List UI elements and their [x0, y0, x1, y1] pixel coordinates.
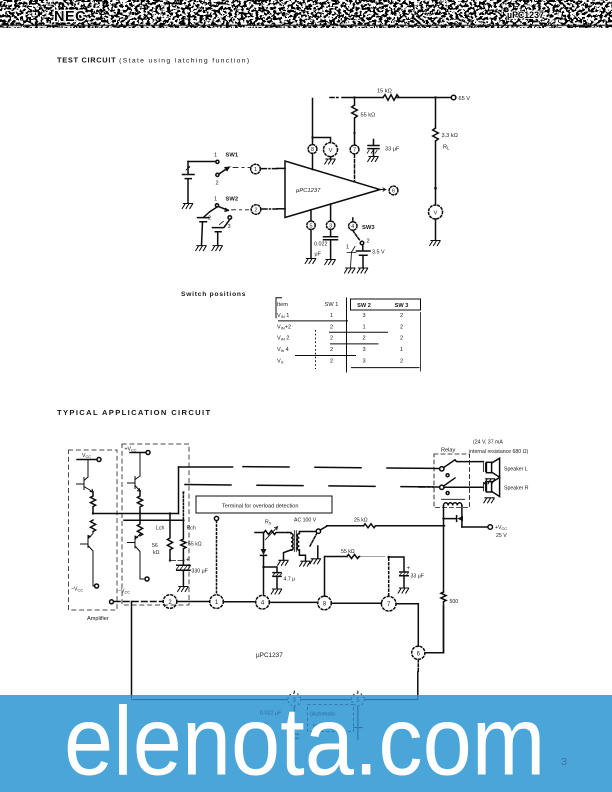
- pin 8: [318, 596, 332, 610]
- svg-text:8: 8: [323, 602, 327, 608]
- svg-text:3: 3: [561, 756, 567, 768]
- pin 6 circle output: [389, 186, 398, 195]
- svg-text:1: 1: [346, 245, 349, 251]
- svg-text:+: +: [186, 557, 190, 564]
- svg-text:SW 3: SW 3: [395, 303, 409, 309]
- wire pin5 cap: [353, 706, 362, 740]
- ground under 4.7u: [271, 589, 281, 594]
- transistor Q4 pnp: [128, 534, 145, 579]
- svg-text:internal resistance 680 Ω): internal resistance 680 Ω): [469, 449, 529, 455]
- voltmeter V1: [324, 143, 338, 157]
- table row VIN-2: [277, 336, 403, 342]
- resistor 55k vertical: [352, 98, 376, 146]
- table bottom rule: [351, 367, 420, 369]
- relay note text: [469, 440, 529, 455]
- svg-text:2: 2: [367, 239, 370, 245]
- ground under B2: [196, 246, 206, 251]
- ground under B1: [182, 204, 192, 209]
- svg-text:1: 1: [400, 347, 403, 353]
- svg-text:2: 2: [400, 336, 403, 342]
- svg-text:65 V: 65 V: [459, 96, 471, 102]
- transformer T1: [288, 518, 317, 552]
- wire to speaker R: [444, 486, 483, 488]
- wire pin5 to ground: [310, 230, 312, 259]
- wire top supply rail: [330, 97, 451, 99]
- svg-text:1: 1: [254, 167, 257, 173]
- switch SW3 arm: [346, 230, 370, 250]
- svg-text:3: 3: [362, 313, 365, 319]
- wire pin7 to pin6 drop: [396, 604, 418, 647]
- wire IC bottom edge: [132, 695, 418, 700]
- svg-text:VIN+2: VIN+2: [277, 324, 291, 330]
- terminal pin2 input: [110, 600, 114, 604]
- svg-text:elenota.com: elenota.com: [64, 687, 545, 792]
- wire SW1 top: [188, 161, 216, 163]
- ground under 33uF: [368, 157, 378, 162]
- uPC1237 header part number: [507, 10, 544, 20]
- pin 2 circle: [251, 205, 261, 215]
- node rail-RL junction dot: [434, 96, 436, 98]
- resistor R4 lower right: [137, 520, 142, 535]
- battery B3 SW2 contact3: [213, 219, 230, 245]
- svg-text:(24 V, 37 mA: (24 V, 37 mA: [473, 440, 503, 446]
- svg-text:VCC: VCC: [82, 453, 91, 459]
- amplifier dashed box left stage: [69, 450, 118, 610]
- circuit traces behind banner: [132, 695, 418, 762]
- ground transformer primary: [278, 560, 288, 565]
- svg-text:2: 2: [400, 358, 403, 364]
- svg-text:TYPICAL APPLICATION CIRCUIT: TYPICAL APPLICATION CIRCUIT: [57, 408, 211, 417]
- pin 3 circle bottom: [326, 221, 334, 229]
- svg-text:1: 1: [214, 153, 217, 159]
- terminal under box: [214, 516, 218, 520]
- svg-text:6: 6: [417, 651, 421, 657]
- capacitor 33uF: [367, 140, 400, 156]
- wire pin8-pin7: [331, 602, 381, 604]
- svg-text:1: 1: [362, 324, 365, 330]
- svg-text:V: V: [329, 148, 333, 154]
- wire transformer primary to ground: [284, 550, 292, 560]
- ground under SW3 contact1: [345, 268, 355, 273]
- wire pin5 stub to triangle: [310, 210, 312, 221]
- table header box SW2 SW3: [351, 299, 421, 310]
- pin 8 circle: [308, 145, 317, 154]
- +VCC terminal right stage: [125, 447, 151, 455]
- svg-text:4: 4: [261, 601, 265, 607]
- svg-text:Speaker L: Speaker L: [504, 466, 528, 472]
- node Lch tap: [169, 512, 171, 514]
- automatic reset dashed box: [308, 705, 354, 732]
- svg-text:Rch: Rch: [187, 526, 196, 532]
- svg-text:3: 3: [362, 347, 365, 353]
- svg-text:Switch positions: Switch positions: [181, 291, 246, 298]
- wire pin6 to relay line: [425, 606, 444, 653]
- pin 5 circle straddling banner: [352, 691, 365, 706]
- svg-text:4: 4: [351, 224, 354, 230]
- table right rule: [420, 312, 422, 372]
- capacitor 4.7u: [264, 567, 296, 589]
- -VCC terminal left stage: [71, 584, 99, 593]
- svg-text:25 V: 25 V: [496, 533, 507, 539]
- svg-text:33 μF: 33 μF: [411, 574, 424, 580]
- node coil-diode left: [442, 517, 444, 519]
- svg-text:2: 2: [330, 358, 333, 364]
- svg-text:TEST CIRCUIT (State using latc: TEST CIRCUIT (State using latching funct…: [57, 56, 250, 65]
- svg-text:25 kΩ: 25 kΩ: [354, 518, 368, 524]
- pin 2: [163, 595, 177, 609]
- svg-text:8: 8: [311, 147, 314, 153]
- VCC terminal left stage: [77, 453, 101, 462]
- svg-text:2: 2: [255, 208, 258, 214]
- table row VS: [277, 358, 403, 364]
- wire line A to relay contact 1: [179, 466, 233, 468]
- svg-text:RL: RL: [443, 145, 450, 151]
- resistor Rs: [255, 520, 288, 540]
- table row rule 3: [330, 343, 379, 345]
- overload detection terminal box: [196, 496, 332, 513]
- svg-text:5: 5: [310, 223, 313, 229]
- voltmeter V2 output: [429, 205, 443, 219]
- NEC logo text: [54, 9, 86, 25]
- terminal 65V: [451, 95, 470, 102]
- svg-text:2: 2: [208, 216, 211, 222]
- battery B1 for SW1: [183, 162, 195, 204]
- table row Vth-4: [277, 347, 403, 353]
- wire pin3 stub to triangle: [330, 204, 332, 221]
- transistor Q3 npn: [128, 453, 141, 492]
- wire to speaker L: [455, 460, 483, 461]
- svg-text:55 kΩ: 55 kΩ: [188, 542, 202, 548]
- pin 1 circle: [251, 164, 261, 174]
- wire diode to pin 4: [263, 567, 265, 595]
- wire terminal to pin1 dotted: [216, 521, 218, 595]
- svg-text:VS: VS: [277, 358, 284, 364]
- ground under speaker R: [484, 498, 494, 503]
- op-amp triangle U1 uPC1237: [285, 161, 380, 218]
- svg-text:−VCC: −VCC: [71, 587, 83, 593]
- svg-text:55 kΩ: 55 kΩ: [341, 549, 355, 555]
- table row VIN-1: [277, 313, 403, 319]
- switch SW1: [214, 153, 251, 187]
- svg-text:+VCC: +VCC: [495, 525, 507, 531]
- banner blue bar: [0, 695, 612, 792]
- svg-text:7: 7: [353, 148, 356, 154]
- table frame left bracket: [276, 298, 282, 319]
- table dotted vertical rule: [315, 330, 317, 369]
- ground transformer secondary: [300, 561, 310, 566]
- table header text: [277, 302, 408, 309]
- svg-text:15 kΩ: 15 kΩ: [377, 89, 392, 95]
- svg-text:SW 2: SW 2: [357, 303, 371, 309]
- pin 1: [210, 595, 224, 609]
- svg-text:µPC1237: µPC1237: [256, 652, 283, 659]
- TEST CIRCUIT heading: [57, 56, 250, 65]
- svg-text:μF: μF: [315, 252, 322, 258]
- wire pin4-pin8: [269, 601, 317, 603]
- speaker R: [483, 478, 528, 497]
- switch AC detect: [310, 529, 321, 558]
- table main vertical rule: [346, 298, 348, 373]
- svg-text:6: 6: [392, 189, 395, 195]
- svg-text:2: 2: [330, 336, 333, 342]
- svg-text:55 kΩ: 55 kΩ: [361, 113, 376, 119]
- resistor 55k pin7: [341, 549, 385, 559]
- svg-text:µPC1237: µPC1237: [296, 188, 321, 194]
- svg-text:kΩ: kΩ: [153, 550, 160, 556]
- svg-text:33 μF: 33 μF: [385, 147, 400, 153]
- resistor R1 emitter left: [90, 492, 95, 514]
- wire amp L output line: [93, 513, 179, 515]
- svg-text:2: 2: [400, 313, 403, 319]
- transistor Q1 npn: [77, 460, 94, 493]
- svg-text:3.3 kΩ: 3.3 kΩ: [442, 133, 458, 139]
- wire transformer secondary to ground: [299, 550, 305, 561]
- battery B4 3.5V SW3: [357, 245, 385, 268]
- svg-text:500: 500: [450, 599, 459, 605]
- resistor 500: [441, 592, 458, 653]
- svg-text:1: 1: [215, 600, 219, 606]
- svg-text:SW 1: SW 1: [325, 302, 339, 308]
- node 25k junction: [442, 525, 444, 527]
- svg-text:3: 3: [329, 223, 332, 229]
- relay contact 2: [419, 478, 455, 489]
- svg-text:VIN 1: VIN 1: [277, 313, 289, 319]
- relay coil: [442, 499, 465, 518]
- wire pin8 to triangle: [312, 154, 314, 170]
- wire line B to relay contact 2: [185, 485, 433, 487]
- output arrow at triangle tip: [380, 188, 386, 191]
- ground under speaker L: [484, 479, 494, 484]
- node RL-output junction dot: [434, 187, 437, 190]
- node rail-55k junction: [353, 96, 355, 98]
- svg-text:1: 1: [330, 313, 333, 319]
- speaker L: [483, 458, 527, 477]
- svg-text:4.7 μ: 4.7 μ: [284, 577, 296, 583]
- svg-text:V: V: [434, 210, 438, 216]
- pin 5 circle bottom: [307, 221, 315, 229]
- resistor 56k Lch: [152, 514, 173, 561]
- svg-text:Vth 4: Vth 4: [277, 347, 289, 353]
- node 55k-pin7 junction dot: [353, 132, 355, 134]
- svg-text:Relay: Relay: [441, 448, 456, 454]
- pin 7 circle: [350, 145, 359, 154]
- wire below pin6 dashed: [417, 659, 419, 672]
- svg-text:Terminal for overload detectio: Terminal for overload detection: [222, 504, 299, 510]
- ground under AC switch: [310, 559, 320, 564]
- wire pin1 to input stub: [262, 167, 286, 169]
- wire relay drive line: [443, 519, 445, 592]
- pin 3 circle straddling banner: [288, 691, 301, 706]
- ground under B4: [357, 268, 367, 273]
- ground under B3: [212, 246, 222, 251]
- wire pin7 to triangle dashed: [354, 155, 356, 182]
- node pin7 top: [387, 556, 390, 559]
- table row rule 4: [295, 355, 356, 357]
- wire pin5 riser: [417, 672, 419, 695]
- svg-text:Lch: Lch: [156, 526, 164, 532]
- svg-text:−VCC: −VCC: [118, 589, 130, 595]
- svg-text:Item: Item: [277, 302, 288, 308]
- node pin8 wire dot: [311, 136, 313, 138]
- ground under voltmeter: [325, 157, 335, 164]
- pin 4 circle SW3: [349, 222, 376, 231]
- table row rule 1: [278, 320, 348, 322]
- svg-text:7: 7: [387, 602, 391, 608]
- relay contact 2 fixed point: [446, 492, 449, 495]
- resistor RL 3.3k: [433, 98, 458, 206]
- svg-text:Speaker R: Speaker R: [504, 485, 529, 491]
- pin 4: [256, 595, 270, 609]
- resistor 55k Rch: [181, 520, 202, 565]
- header noise bar: [0, 1, 612, 27]
- pin 6: [412, 646, 425, 659]
- svg-text:2: 2: [400, 324, 403, 330]
- relay contact 1 fixed point: [446, 474, 449, 477]
- capacitor 33uF pin7: [389, 557, 424, 588]
- resistor R3 emitter right: [137, 491, 142, 520]
- wire dashed to pin 2: [115, 601, 164, 603]
- node Lch-Rch common: [169, 559, 182, 561]
- ground under V2: [430, 241, 440, 246]
- svg-text:NEC: NEC: [54, 9, 86, 25]
- svg-text:SW3: SW3: [362, 225, 375, 231]
- resistor 25k: [354, 518, 445, 528]
- transistor Q2 pnp: [81, 532, 95, 586]
- svg-text:0.022: 0.022: [314, 242, 328, 248]
- ground under 330uF: [178, 587, 188, 592]
- IC box left edge: [131, 602, 133, 696]
- diode D1 flyback: [444, 516, 464, 527]
- table row VIN+2: [277, 324, 403, 330]
- wire Vcc pin8 column: [313, 99, 331, 145]
- svg-text:µPC1237: µPC1237: [507, 10, 544, 20]
- table row rule 2: [329, 331, 388, 333]
- svg-text:2: 2: [330, 324, 333, 330]
- wire V2 to ground: [435, 219, 437, 240]
- relay contact 1: [434, 460, 455, 471]
- svg-text:3: 3: [228, 224, 231, 230]
- svg-text:+VCC: +VCC: [125, 447, 137, 453]
- resistor 15k on rail: [377, 89, 399, 101]
- svg-text:Amplifier: Amplifier: [87, 616, 109, 622]
- wire pin8 Vcc feed: [325, 557, 348, 597]
- svg-text:56: 56: [152, 543, 158, 549]
- svg-text:2: 2: [216, 181, 219, 187]
- wire AC switch to 25k: [320, 526, 363, 530]
- terminal +VCC 25V: [488, 525, 507, 539]
- relay dashed box: [434, 454, 470, 508]
- wire to +VCC terminal: [462, 526, 488, 528]
- resistor R2 lower left: [90, 520, 95, 532]
- diode D2 detection: [261, 533, 267, 568]
- svg-text:+: +: [407, 566, 411, 572]
- -VCC terminal right stage: [118, 577, 149, 595]
- wire riser to relay line A: [178, 467, 180, 514]
- svg-text:RS: RS: [265, 520, 272, 526]
- wire pin2-pin1: [177, 601, 210, 603]
- capacitor 330uF: [176, 557, 208, 587]
- wire Rch from line B dotted: [182, 491, 184, 520]
- svg-text:2: 2: [330, 347, 333, 353]
- svg-text:330 μF: 330 μF: [192, 569, 208, 575]
- pin 7: [381, 596, 396, 611]
- node Rch tap: [182, 519, 184, 521]
- amplifier dashed box right stage: [122, 444, 189, 605]
- svg-text:VIN 2: VIN 2: [277, 336, 289, 342]
- ground under pin5: [305, 259, 315, 264]
- ground under 0.022uF: [325, 260, 335, 265]
- svg-text:SW1: SW1: [226, 153, 239, 159]
- svg-text:SW2: SW2: [226, 197, 239, 203]
- battery B2 SW2 contact2: [198, 207, 218, 245]
- svg-text:3: 3: [362, 358, 365, 364]
- node pin4 branch: [262, 566, 264, 568]
- wire amp R output line: [124, 519, 183, 521]
- wire node to pin7 dotted: [388, 559, 390, 597]
- wire pin2 to input stub: [262, 208, 285, 210]
- svg-text:AC 100 V: AC 100 V: [294, 518, 317, 524]
- wire pin1-pin4: [223, 601, 255, 603]
- wire pin4 stub: [352, 218, 354, 222]
- capacitor 0.022uF on pin3: [314, 230, 338, 260]
- svg-text:2: 2: [362, 336, 365, 342]
- capacitor 0.022uF pin3: [290, 706, 300, 762]
- svg-text:1: 1: [214, 197, 217, 203]
- node amp L output: [92, 512, 94, 514]
- ground under 33uF: [398, 588, 408, 593]
- switch SW2: [208, 197, 249, 231]
- wire SW3 contact1 to ground: [347, 247, 356, 268]
- svg-text:3.5 V: 3.5 V: [372, 250, 385, 256]
